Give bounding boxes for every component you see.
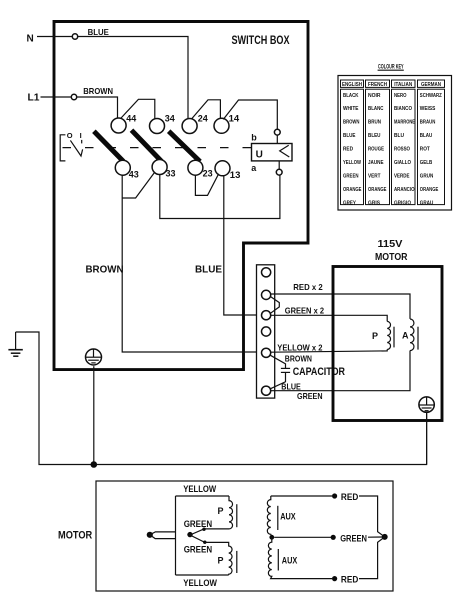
svg-text:GREEN x 2: GREEN x 2 <box>285 305 324 315</box>
svg-text:115V: 115V <box>378 238 403 250</box>
wire 43 to 33 step <box>122 173 154 198</box>
svg-text:BLEU: BLEU <box>368 133 381 139</box>
wire BROWN from L1 <box>77 97 118 118</box>
switch contact 14 <box>214 118 229 133</box>
column body cells <box>341 89 364 204</box>
svg-text:BLUE: BLUE <box>343 133 356 139</box>
svg-text:BROWN: BROWN <box>83 86 113 96</box>
switch box outline <box>54 22 308 370</box>
svg-text:ITALIAN: ITALIAN <box>394 82 412 88</box>
ground symbol left <box>8 332 22 356</box>
svg-text:WHITE: WHITE <box>343 106 359 112</box>
node red top <box>332 493 337 498</box>
ground bus wire <box>16 332 427 465</box>
node aux junction <box>269 535 274 540</box>
svg-text:P: P <box>218 555 224 565</box>
svg-text:MARRONE: MARRONE <box>394 120 415 126</box>
svg-text:BROWN: BROWN <box>86 264 124 276</box>
svg-text:BROWN: BROWN <box>285 353 312 363</box>
wire b to coil <box>276 135 278 143</box>
svg-text:AUX: AUX <box>280 512 296 522</box>
switch bar 1 <box>94 131 124 161</box>
wire red top to star <box>359 496 385 537</box>
terminal circle L1 <box>71 94 76 99</box>
wire RED x 2 <box>271 294 410 319</box>
svg-text:RED: RED <box>341 575 359 586</box>
svg-text:GREY: GREY <box>343 200 356 206</box>
svg-text:33: 33 <box>166 169 176 179</box>
wire 44 to 34 <box>121 99 155 119</box>
svg-text:BRAUN: BRAUN <box>420 120 436 126</box>
wire red bottom to star <box>359 537 385 579</box>
svg-text:ROT: ROT <box>420 147 430 153</box>
switch bar 3 <box>169 131 200 161</box>
svg-text:14: 14 <box>229 114 240 125</box>
svg-text:BLACK: BLACK <box>343 93 359 99</box>
wire U box to a <box>278 161 280 169</box>
wire N lead <box>37 36 72 38</box>
node red bottom <box>332 576 337 581</box>
svg-text:P: P <box>372 331 378 341</box>
wire yellow top <box>176 495 230 497</box>
strip terminal 5 <box>262 348 271 357</box>
wire aux top to red <box>271 495 332 497</box>
switch contact 44 <box>111 118 126 133</box>
svg-text:JAUNE: JAUNE <box>368 160 384 166</box>
wire 23 to 13 step <box>195 174 218 196</box>
svg-text:WEISS: WEISS <box>420 106 436 112</box>
svg-text:GRIGIO: GRIGIO <box>394 200 412 206</box>
svg-text:AUX: AUX <box>282 555 298 565</box>
svg-text:GERMAN: GERMAN <box>421 82 441 88</box>
svg-text:RED: RED <box>341 492 359 503</box>
node green right <box>331 535 336 540</box>
svg-text:YELLOW: YELLOW <box>343 160 362 166</box>
wire BROWN down from 43 <box>122 175 261 352</box>
svg-text:GELB: GELB <box>420 160 433 166</box>
wire green fork <box>190 529 205 543</box>
wire 14 to coil b <box>223 100 277 129</box>
svg-text:GREEN: GREEN <box>184 545 212 555</box>
switch contact 43 <box>115 160 130 175</box>
svg-text:13: 13 <box>230 170 241 181</box>
wire earth to bus <box>93 366 95 464</box>
wire yellow busbar <box>175 496 177 575</box>
winding P top <box>204 496 233 529</box>
svg-text:MOTOR: MOTOR <box>58 530 92 542</box>
wire GREEN x 2 <box>271 315 388 321</box>
wire BLUE from N <box>78 37 188 119</box>
earth wire motor to bus <box>426 412 428 464</box>
svg-text:MOTOR: MOTOR <box>375 251 408 263</box>
svg-text:GREEN: GREEN <box>340 533 367 544</box>
wire yellow bottom <box>176 574 229 576</box>
svg-text:L1: L1 <box>28 92 40 103</box>
winding P <box>387 321 390 349</box>
switch contact 33 <box>152 160 167 175</box>
svg-text:ROUGE: ROUGE <box>368 147 384 153</box>
svg-text:A: A <box>402 330 409 340</box>
svg-text:P: P <box>218 506 224 516</box>
svg-text:GRUN: GRUN <box>420 173 434 179</box>
wire 24 to 14 <box>192 100 221 119</box>
svg-text:RED: RED <box>343 147 353 153</box>
svg-text:I: I <box>80 131 82 140</box>
winding AUX top <box>267 496 271 537</box>
svg-text:b: b <box>251 132 257 142</box>
wire GREEN single <box>271 351 410 391</box>
svg-text:ORANGE: ORANGE <box>343 187 362 193</box>
svg-text:44: 44 <box>126 113 136 123</box>
earth terminal motor <box>419 397 434 412</box>
svg-text:BLAU: BLAU <box>420 133 433 139</box>
wire green center <box>274 536 331 538</box>
svg-text:GREEN: GREEN <box>184 519 212 529</box>
svg-text:CAPACITOR: CAPACITOR <box>293 366 345 378</box>
svg-text:24: 24 <box>198 113 208 123</box>
115V motor box <box>333 267 442 421</box>
strip terminal 4 <box>262 327 271 336</box>
terminal circle N <box>72 34 77 39</box>
node green bottom <box>203 541 206 544</box>
node common green <box>187 532 192 537</box>
svg-text:34: 34 <box>165 113 175 123</box>
svg-text:VERT: VERT <box>368 173 381 179</box>
svg-text:ARANCIO: ARANCIO <box>394 187 415 193</box>
strip terminal 6 <box>262 386 271 395</box>
svg-text:ROSSO: ROSSO <box>394 147 411 153</box>
junction dot ground bus <box>91 461 98 468</box>
capacitor C <box>270 355 285 368</box>
node star <box>382 534 388 540</box>
motor detail box <box>96 481 393 591</box>
svg-text:GREEN: GREEN <box>343 173 359 179</box>
coil U box <box>252 144 293 161</box>
switch contact 24 <box>182 119 197 134</box>
svg-text:GIALLO: GIALLO <box>394 160 412 166</box>
svg-text:23: 23 <box>203 169 213 179</box>
svg-text:U: U <box>256 150 263 161</box>
svg-text:GRAU: GRAU <box>420 200 434 206</box>
svg-text:BLU: BLU <box>394 133 404 139</box>
colour key table <box>338 64 452 210</box>
switch contact 13 <box>215 161 230 176</box>
svg-text:43: 43 <box>129 170 139 180</box>
svg-text:BLUE: BLUE <box>281 381 301 391</box>
chevron in U box <box>280 145 290 157</box>
wire YELLOW x 2 <box>271 349 388 352</box>
terminal strip <box>257 265 275 398</box>
svg-text:BIANCO: BIANCO <box>394 106 413 112</box>
svg-text:SWITCH BOX: SWITCH BOX <box>232 33 290 47</box>
svg-text:NERO: NERO <box>394 93 407 99</box>
actuator dashed line <box>63 147 252 149</box>
svg-text:SCHWARZ: SCHWARZ <box>420 93 442 99</box>
svg-text:BLUE: BLUE <box>195 264 222 276</box>
svg-text:GRIS: GRIS <box>368 200 380 206</box>
switch bar 2 <box>132 130 162 161</box>
wire green to star <box>368 536 382 538</box>
svg-text:ENGLISH: ENGLISH <box>342 82 362 88</box>
wire 33 and a to common <box>160 174 280 218</box>
strip terminal 1 <box>262 268 271 277</box>
svg-text:BLUE: BLUE <box>88 28 110 37</box>
svg-text:BLANC: BLANC <box>368 106 384 112</box>
switch contact 23 <box>188 160 203 175</box>
node common yellow <box>147 532 153 538</box>
svg-text:ORANGE: ORANGE <box>420 187 439 193</box>
svg-text:NOIR: NOIR <box>368 93 381 99</box>
svg-text:FRENCH: FRENCH <box>368 82 387 88</box>
svg-text:VERDE: VERDE <box>394 173 410 179</box>
svg-text:RED x 2: RED x 2 <box>293 282 323 292</box>
svg-text:GREEN: GREEN <box>297 391 323 401</box>
svg-text:YELLOW: YELLOW <box>183 484 216 494</box>
svg-text:O: O <box>67 131 73 140</box>
winding A <box>410 319 414 351</box>
jumper terminals 2-3 <box>270 297 279 314</box>
strip terminal 3 <box>262 311 271 320</box>
winding P bottom <box>205 542 232 575</box>
wire L1 lead <box>41 96 72 98</box>
earth terminal switch box <box>86 349 102 365</box>
svg-text:YELLOW: YELLOW <box>183 578 217 588</box>
header cells <box>341 80 445 205</box>
svg-text:ORANGE: ORANGE <box>368 187 387 193</box>
svg-text:YELLOW x 2: YELLOW x 2 <box>277 342 322 352</box>
switch contact 34 <box>150 119 165 134</box>
winding AUX bottom <box>268 537 332 578</box>
wire BLUE down from 13 <box>224 175 262 315</box>
strip terminal 2 <box>262 290 271 299</box>
terminal b <box>274 129 280 135</box>
wire yellow fork <box>150 532 176 539</box>
svg-text:BROWN: BROWN <box>343 120 360 126</box>
svg-text:BRUN: BRUN <box>368 120 381 126</box>
svg-text:N: N <box>27 33 34 44</box>
node green top <box>202 528 205 531</box>
O-I selector symbol <box>60 135 65 161</box>
